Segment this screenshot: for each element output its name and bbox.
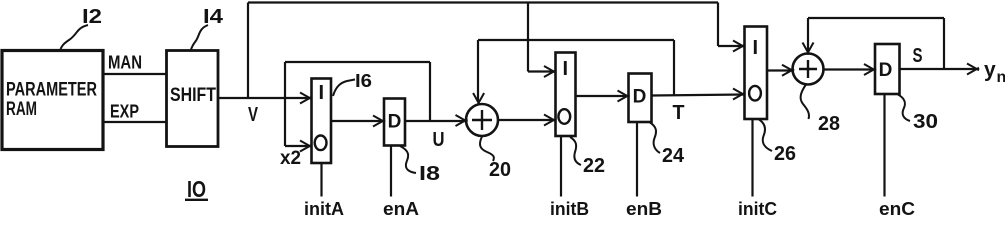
svg-text:30: 30 bbox=[913, 111, 938, 133]
svg-text:initB: initB bbox=[550, 199, 589, 216]
svg-text:I: I bbox=[319, 82, 325, 104]
svg-text:D: D bbox=[879, 60, 893, 81]
svg-text:I8: I8 bbox=[419, 163, 440, 185]
svg-text:D: D bbox=[633, 87, 647, 108]
svg-text:V: V bbox=[248, 104, 258, 126]
svg-text:n: n bbox=[997, 69, 1005, 86]
svg-text:26: 26 bbox=[774, 143, 796, 165]
svg-text:SHIFT: SHIFT bbox=[170, 85, 216, 106]
svg-text:RAM: RAM bbox=[6, 99, 37, 120]
svg-text:enA: enA bbox=[383, 199, 419, 216]
svg-text:U: U bbox=[433, 129, 445, 151]
svg-text:T: T bbox=[673, 102, 685, 124]
svg-text:I2: I2 bbox=[82, 6, 102, 28]
svg-text:I: I bbox=[563, 58, 569, 80]
svg-text:initC: initC bbox=[738, 199, 777, 216]
svg-text:PARAMETER: PARAMETER bbox=[6, 80, 97, 101]
svg-text:20: 20 bbox=[489, 159, 511, 181]
svg-text:22: 22 bbox=[583, 155, 605, 177]
svg-text:D: D bbox=[388, 112, 402, 133]
svg-text:24: 24 bbox=[662, 145, 685, 167]
svg-text:I: I bbox=[753, 37, 759, 59]
svg-text:enC: enC bbox=[879, 199, 915, 216]
svg-text:MAN: MAN bbox=[108, 53, 142, 73]
svg-text:enB: enB bbox=[626, 199, 662, 216]
svg-text:x2: x2 bbox=[280, 148, 301, 169]
svg-text:EXP: EXP bbox=[110, 102, 139, 122]
svg-text:I6: I6 bbox=[355, 71, 372, 91]
svg-text:IO: IO bbox=[187, 176, 206, 202]
svg-text:28: 28 bbox=[818, 113, 840, 135]
svg-text:I4: I4 bbox=[203, 6, 224, 28]
svg-text:S: S bbox=[913, 45, 923, 67]
svg-text:y: y bbox=[984, 59, 996, 82]
svg-text:initA: initA bbox=[304, 199, 344, 216]
